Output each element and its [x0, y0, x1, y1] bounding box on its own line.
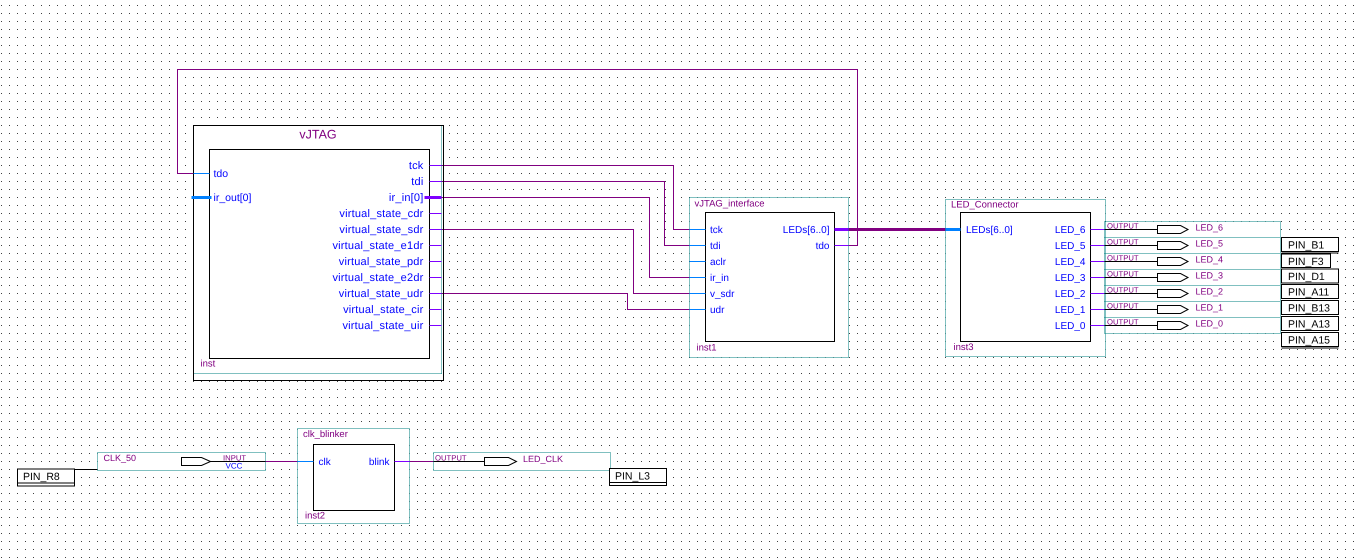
svg-text:udr: udr: [710, 305, 725, 316]
output pin connector LED_3: [1105, 270, 1224, 282]
vJTAG selection dashed bottom edge: [195, 373, 442, 375]
pin LEDs[6..0] (LED_Connector bus input): [946, 228, 961, 231]
vJTAG selection dashed right edge: [441, 127, 443, 374]
svg-text:PIN_A15: PIN_A15: [1288, 335, 1330, 347]
pin location box PIN_B1: [1282, 238, 1339, 252]
svg-text:LED_0: LED_0: [1196, 318, 1224, 328]
svg-text:PIN_B1: PIN_B1: [1288, 240, 1324, 252]
svg-text:OUTPUT: OUTPUT: [1107, 302, 1139, 311]
svg-text:virtual_state_cdr: virtual_state_cdr: [339, 208, 423, 220]
white area LED_CLK output pin: [434, 453, 611, 471]
svg-text:virtual_state_uir: virtual_state_uir: [342, 320, 423, 332]
svg-text:VCC: VCC: [226, 462, 243, 471]
op vJTAG_interface selection rect: [690, 198, 849, 358]
svg-text:tdo: tdo: [816, 241, 830, 252]
pin tdo (vJTAG input): [194, 173, 210, 175]
pin ir_out[0] (vJTAG bus input): [192, 196, 212, 199]
svg-text:LED_3: LED_3: [1055, 273, 1086, 284]
pin LED_0 (LED_Connector output): [1091, 325, 1105, 327]
pin blink (clk_blinker output): [395, 461, 410, 463]
output pin connector divider 4: [1105, 301, 1281, 303]
svg-text:LED_5: LED_5: [1196, 238, 1224, 248]
pin LED_6 (LED_Connector output): [1091, 229, 1105, 231]
clk_blinker body rectangle: [314, 445, 395, 511]
pin LED_2 (LED_Connector output): [1091, 293, 1105, 295]
pin virtual_state_e2dr (vJTAG output): [430, 277, 442, 279]
output pin connector divider 5: [1105, 317, 1281, 319]
svg-text:vJTAG: vJTAG: [299, 128, 336, 142]
pin location box PIN_F3: [1282, 254, 1331, 268]
pin virtual_state_cir (vJTAG output): [430, 309, 442, 311]
svg-text:LED_0: LED_0: [1055, 321, 1086, 332]
pin ir_in[0] (vJTAG output): [425, 196, 442, 199]
svg-text:OUTPUT: OUTPUT: [1107, 270, 1139, 279]
svg-text:virtual_state_sdr: virtual_state_sdr: [339, 224, 423, 236]
svg-text:tck: tck: [710, 225, 724, 236]
svg-text:OUTPUT: OUTPUT: [1107, 286, 1139, 295]
wire net udr: vJTAG.virtual_state_udr to vJTAG_interface.udr: [442, 294, 690, 310]
svg-text:LED_2: LED_2: [1196, 286, 1224, 296]
pin location box PIN_A15 shadow line: [1282, 347, 1339, 349]
pin LED_1 (LED_Connector output): [1091, 309, 1105, 311]
output pin connector group frame: [1105, 222, 1281, 334]
svg-text:LED_6: LED_6: [1055, 225, 1086, 236]
output pin connector LED_CLK: [434, 453, 611, 471]
op LED_Connector selection rect: [946, 200, 1106, 357]
svg-text:OUTPUT: OUTPUT: [1107, 238, 1139, 247]
white area vJTAG symbol: [194, 126, 444, 381]
pin virtual_state_udr (vJTAG output): [430, 293, 442, 295]
svg-text:inst2: inst2: [305, 511, 325, 522]
output pin connector LED_1: [1105, 302, 1224, 314]
pin tck (vJTAG_interface input): [690, 229, 706, 231]
svg-text:LED_4: LED_4: [1196, 254, 1224, 264]
pin virtual_state_uir (vJTAG output): [430, 325, 442, 327]
pin udr (vJTAG_interface input): [690, 309, 706, 311]
LED_Connector body rectangle: [961, 213, 1091, 342]
svg-text:ir_in: ir_in: [710, 273, 729, 284]
svg-text:tdo: tdo: [214, 168, 229, 180]
svg-text:inst1: inst1: [697, 343, 717, 354]
svg-text:tdi: tdi: [411, 176, 423, 188]
pin LEDs[6..0] (vJTAG_interface bus output): [835, 228, 849, 231]
white area clk_blinker instance: [298, 429, 410, 524]
svg-text:PIN_A11: PIN_A11: [1288, 287, 1329, 299]
pin tdi (vJTAG_interface input): [690, 245, 706, 247]
output pin connector LED_2: [1105, 286, 1224, 298]
wire net tdi: vJTAG.tdi to vJTAG_interface.tdi: [442, 182, 690, 246]
svg-text:OUTPUT: OUTPUT: [1107, 254, 1139, 263]
white area vJTAG_interface instance: [690, 198, 849, 358]
pin location box PIN_L3: [610, 469, 667, 486]
wire net tdo: vJTAG_interface.tdo to vJTAG.tdo: [178, 70, 858, 246]
white area CLK_50 input pin: [98, 453, 266, 471]
pin location box PIN_B13: [1282, 301, 1339, 315]
svg-text:clk: clk: [319, 457, 332, 468]
svg-text:v_sdr: v_sdr: [710, 289, 735, 300]
svg-text:PIN_B13: PIN_B13: [1288, 303, 1330, 315]
white area output pin column: [1105, 222, 1281, 334]
pin location box PIN_R8: [18, 469, 98, 486]
white area LED_Connector instance: [946, 200, 1106, 357]
wire net CLK_50: input pin to clk_blinker.clk: [266, 461, 298, 463]
op vJTAG outer border: [194, 126, 444, 381]
vJTAG_interface body rectangle: [706, 213, 835, 342]
svg-text:OUTPUT: OUTPUT: [1107, 222, 1139, 231]
svg-text:virtual_state_e2dr: virtual_state_e2dr: [332, 272, 423, 284]
pin location box PIN_A11: [1282, 285, 1339, 299]
svg-text:LED_1: LED_1: [1196, 302, 1224, 312]
wire net v_sdr: vJTAG.virtual_state_sdr to vJTAG_interface.v_sdr: [442, 230, 690, 294]
output pin connector divider 1: [1105, 253, 1281, 255]
output pin connector LED_5: [1105, 238, 1224, 250]
svg-text:OUTPUT: OUTPUT: [435, 454, 467, 463]
svg-text:PIN_L3: PIN_L3: [615, 471, 650, 483]
pin virtual_state_pdr (vJTAG output): [430, 261, 442, 263]
wire net ir_in: vJTAG.ir_in[0] to vJTAG_interface.ir_in: [442, 198, 690, 278]
pin location box PIN_D1: [1282, 269, 1339, 283]
output pin connector divider 2: [1105, 269, 1281, 271]
pin LED_3 (LED_Connector output): [1091, 277, 1105, 279]
pin v_sdr (vJTAG_interface input): [690, 293, 706, 295]
pin tck (vJTAG output): [430, 165, 442, 167]
svg-text:LED_CLK: LED_CLK: [523, 454, 563, 464]
svg-text:PIN_D1: PIN_D1: [1288, 271, 1325, 283]
output pin connector LED_0: [1105, 318, 1224, 330]
svg-text:LEDs[6..0]: LEDs[6..0]: [783, 225, 830, 236]
output pin connector LED_4: [1105, 254, 1224, 266]
svg-text:LED_5: LED_5: [1055, 241, 1086, 252]
svg-text:tck: tck: [409, 160, 424, 172]
pin virtual_state_sdr (vJTAG output): [430, 229, 442, 231]
svg-text:vJTAG_interface: vJTAG_interface: [695, 199, 765, 210]
output pin connector divider 0: [1105, 237, 1281, 239]
svg-text:LED_6: LED_6: [1196, 222, 1224, 232]
pin virtual_state_cdr (vJTAG output): [430, 213, 442, 215]
svg-text:inst: inst: [201, 359, 216, 370]
svg-text:LED_2: LED_2: [1055, 289, 1086, 300]
svg-text:inst3: inst3: [954, 342, 974, 353]
pin virtual_state_e1dr (vJTAG output): [430, 245, 442, 247]
svg-text:virtual_state_pdr: virtual_state_pdr: [339, 256, 424, 268]
pin clk (clk_blinker input): [298, 461, 314, 463]
svg-text:PIN_A13: PIN_A13: [1288, 319, 1330, 331]
svg-text:ir_in[0]: ir_in[0]: [389, 192, 424, 204]
output pin connector LED_6: [1105, 222, 1224, 234]
svg-text:blink: blink: [369, 457, 391, 468]
svg-text:aclr: aclr: [710, 257, 727, 268]
svg-text:virtual_state_udr: virtual_state_udr: [339, 288, 424, 300]
input pin connector CLK_50: [98, 453, 266, 471]
bus net LEDs[6..0]: vJTAG_interface to LED_Connector: [849, 228, 946, 231]
svg-text:OUTPUT: OUTPUT: [1107, 318, 1139, 327]
svg-text:LEDs[6..0]: LEDs[6..0]: [966, 225, 1013, 236]
op clk_blinker selection rect: [298, 429, 410, 524]
svg-text:virtual_state_cir: virtual_state_cir: [343, 304, 424, 316]
vJTAG body rectangle: [210, 150, 430, 359]
pin LED_5 (LED_Connector output): [1091, 245, 1105, 247]
pin location box PIN_A13: [1282, 317, 1339, 331]
svg-text:LED_Connector: LED_Connector: [951, 200, 1019, 211]
svg-text:virtual_state_e1dr: virtual_state_e1dr: [332, 240, 423, 252]
pin location box PIN_A15: [1282, 333, 1339, 347]
svg-text:LED_3: LED_3: [1196, 270, 1224, 280]
svg-text:CLK_50: CLK_50: [104, 453, 137, 463]
pin aclr (vJTAG_interface input): [690, 261, 706, 263]
svg-text:LED_1: LED_1: [1055, 305, 1086, 316]
svg-text:tdi: tdi: [710, 241, 721, 252]
wire net tck: vJTAG.tck to vJTAG_interface.tck: [442, 166, 690, 230]
svg-text:LED_4: LED_4: [1055, 257, 1086, 268]
svg-text:clk_blinker: clk_blinker: [303, 429, 348, 440]
pin tdi (vJTAG output): [430, 181, 442, 183]
svg-text:PIN_R8: PIN_R8: [23, 471, 60, 483]
pin location box PIN_B1 shadow line: [1282, 252, 1339, 254]
wire net LED_CLK: clk_blinker.blink to output pin: [410, 461, 434, 463]
svg-text:PIN_F3: PIN_F3: [1288, 256, 1324, 268]
svg-text:ir_out[0]: ir_out[0]: [214, 192, 252, 204]
pin tdo (vJTAG_interface output): [835, 245, 849, 247]
pin ir_in (vJTAG_interface input): [690, 277, 706, 279]
output pin connector divider 3: [1105, 285, 1281, 287]
pin LED_4 (LED_Connector output): [1091, 261, 1105, 263]
